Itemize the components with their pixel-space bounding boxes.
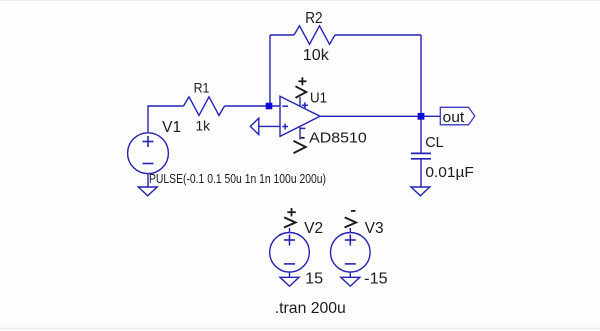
- wire V1 bottom stub: [147, 174, 149, 187]
- ground under V2: [280, 277, 299, 286]
- value AD8510: [309, 130, 367, 147]
- net flag - above V3: [345, 211, 357, 228]
- wire V2 top stub: [289, 228, 291, 233]
- svg-text:0.01µF: 0.01µF: [425, 164, 474, 181]
- resistor R2: [294, 26, 335, 45]
- label V2: [304, 220, 323, 237]
- wire capacitor to ground: [420, 159, 422, 187]
- bottom window edge: [0, 328, 600, 331]
- ground on op-amp noninverting input: [250, 118, 280, 134]
- voltage source V2: [270, 233, 310, 273]
- svg-text:R2: R2: [305, 10, 322, 27]
- ground under CL: [411, 187, 430, 196]
- svg-text:V1: V1: [162, 119, 181, 136]
- spice directive .tran 200u: [275, 300, 346, 317]
- label R2: [305, 10, 322, 27]
- wire V3 bottom stub: [349, 272, 351, 277]
- svg-text:CL: CL: [425, 135, 444, 151]
- svg-text:1k: 1k: [196, 118, 211, 134]
- svg-text:out: out: [443, 109, 466, 126]
- label CL: [425, 135, 444, 151]
- value 1k: [196, 118, 211, 134]
- svg-text:10k: 10k: [303, 47, 330, 64]
- svg-text:PULSE(-0.1 0.1 50u 1n 1n 100u: PULSE(-0.1 0.1 50u 1n 1n 100u 200u): [149, 171, 326, 186]
- svg-text:R1: R1: [194, 79, 210, 95]
- wire R2 left lead: [270, 34, 294, 36]
- top window edge: [0, 0, 600, 2]
- voltage source V3: [331, 233, 371, 273]
- op-amp U1: [280, 96, 320, 139]
- wire V1 to R1: [148, 106, 184, 133]
- value -15: [364, 271, 388, 288]
- wire V2 bottom stub: [289, 272, 291, 277]
- value PULSE: [149, 171, 326, 186]
- value 10k: [303, 47, 330, 64]
- net flag V+ on op-amp: [296, 77, 307, 98]
- value 0.01uF: [425, 164, 474, 181]
- wire R2 right lead: [335, 34, 421, 36]
- voltage source V1: [128, 133, 169, 174]
- value 15: [305, 271, 323, 288]
- svg-text:-15: -15: [364, 271, 388, 288]
- resistor R1: [184, 97, 225, 116]
- wire feedback left vertical: [269, 35, 271, 106]
- label V1: [162, 119, 181, 136]
- wire V3 top stub: [349, 228, 351, 233]
- capacitor CL: [411, 153, 431, 158]
- label U1: [310, 89, 327, 106]
- net flag out: [440, 107, 475, 126]
- ground under V1: [138, 187, 157, 196]
- svg-text:AD8510: AD8510: [309, 130, 367, 147]
- label R1: [194, 79, 210, 95]
- wire feedback right vertical: [420, 35, 422, 116]
- label V3: [365, 220, 384, 237]
- svg-text:V2: V2: [304, 220, 323, 237]
- svg-text:V3: V3: [365, 220, 384, 237]
- wire R1 to op-amp inverting input: [225, 105, 281, 107]
- junction node at R1/R2: [266, 103, 273, 110]
- net flag + above V2: [284, 208, 296, 228]
- ground under V3: [341, 277, 360, 286]
- svg-text:U1: U1: [310, 89, 327, 106]
- net flag V- on op-amp: [294, 138, 306, 153]
- junction node out: [418, 113, 425, 120]
- wire out to capacitor: [420, 119, 422, 153]
- svg-text:.tran 200u: .tran 200u: [275, 300, 346, 317]
- svg-text:15: 15: [305, 271, 323, 288]
- wire op-amp output: [320, 115, 440, 117]
